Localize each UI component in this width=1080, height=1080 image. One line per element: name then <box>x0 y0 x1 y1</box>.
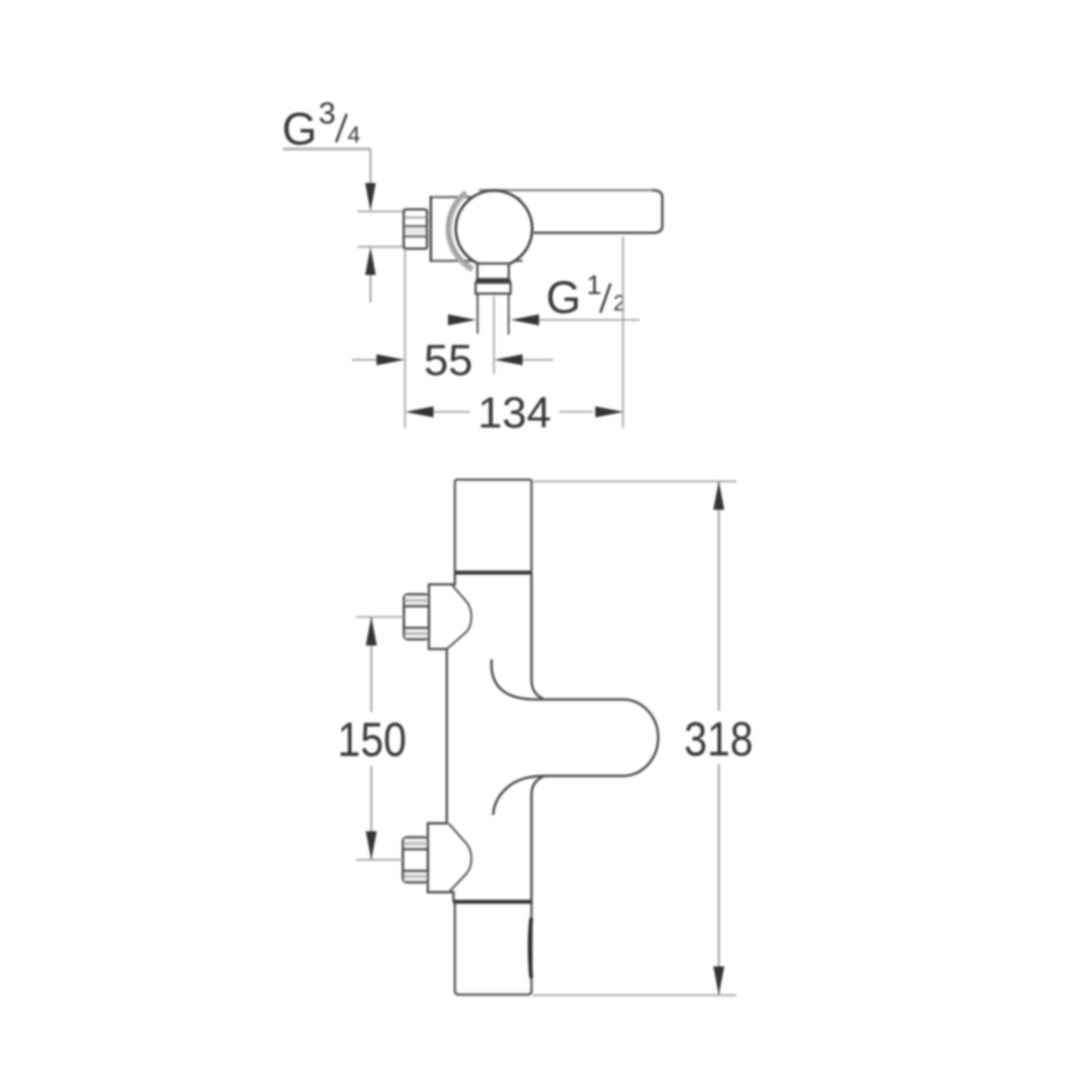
dimension 55 <box>352 336 554 385</box>
upper hex nut <box>404 594 429 639</box>
upper union dome <box>447 584 471 648</box>
extension line right (spout end) <box>622 237 624 429</box>
outlet collar band <box>476 279 511 282</box>
hex wall union (top view) <box>404 209 427 248</box>
handle (front view) <box>537 699 658 776</box>
valve body rectangle (top view) <box>430 196 523 262</box>
lower centerline <box>356 859 403 861</box>
svg-text:134: 134 <box>478 389 551 438</box>
lever handle (top view) <box>479 190 662 233</box>
outlet pipe G1/2 <box>477 294 479 334</box>
junction line bottom <box>453 900 531 904</box>
svg-text:G: G <box>282 104 317 155</box>
svg-text:G: G <box>546 272 581 323</box>
handle neck lower curve <box>493 776 541 815</box>
extension line thread bottom <box>358 246 405 248</box>
upper centerline <box>356 616 404 618</box>
grip arc on bottom cap <box>530 918 532 978</box>
leader line of G3/4 <box>283 148 371 151</box>
extension line thread top <box>358 210 405 212</box>
outlet centerline <box>493 296 495 374</box>
arrow down to thread top <box>365 183 376 211</box>
body right edge above handle <box>532 573 544 699</box>
extension line left (wall face) <box>404 250 406 428</box>
lower union dome <box>449 823 472 892</box>
handle stadium outline <box>536 699 658 776</box>
label G3/4 <box>282 96 361 155</box>
svg-text:1: 1 <box>587 270 602 300</box>
body right edge below handle <box>532 776 544 901</box>
mid body fill <box>428 573 532 902</box>
bottom cap <box>455 902 532 995</box>
svg-text:318: 318 <box>684 714 753 767</box>
dimension G1/2 arrows <box>448 314 476 325</box>
cartridge circle (top view) <box>456 191 532 267</box>
dimension 150 <box>338 617 407 860</box>
mid body left contour <box>428 573 455 902</box>
svg-text:4: 4 <box>348 122 361 148</box>
svg-text:3: 3 <box>319 96 336 131</box>
svg-text:55: 55 <box>424 336 473 385</box>
label G1/2 <box>546 270 625 323</box>
junction line top <box>455 571 532 575</box>
handle neck upper curve <box>491 660 536 700</box>
outlet neck under circle <box>477 264 508 280</box>
arrow up to thread bottom <box>365 247 376 275</box>
dimension 318 <box>533 481 753 995</box>
top cap <box>455 480 532 573</box>
dimension 134 <box>405 389 624 438</box>
svg-text:150: 150 <box>338 714 407 767</box>
lower hex nut <box>403 837 428 882</box>
escutcheon arc behind body <box>449 193 473 270</box>
